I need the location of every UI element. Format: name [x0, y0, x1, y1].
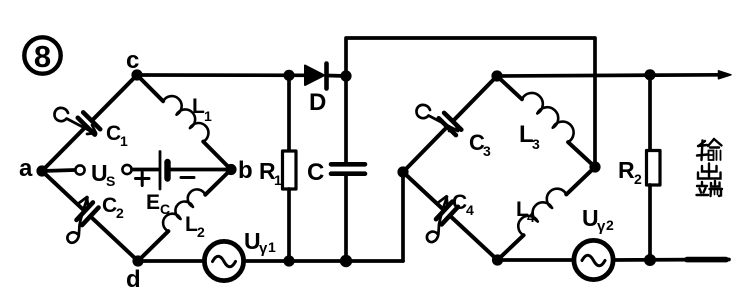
svg-text:D: D — [309, 89, 326, 116]
svg-text:R: R — [618, 157, 635, 183]
svg-text:E: E — [146, 191, 160, 214]
svg-text:1: 1 — [120, 133, 128, 149]
svg-text:C: C — [102, 194, 117, 217]
svg-text:2: 2 — [116, 205, 124, 221]
svg-text:b: b — [238, 157, 253, 184]
svg-text:3: 3 — [532, 136, 540, 152]
svg-text:c: c — [126, 47, 139, 74]
svg-text:4: 4 — [527, 209, 535, 225]
svg-text:4: 4 — [466, 202, 474, 218]
svg-text:3: 3 — [483, 143, 491, 159]
svg-text:γ: γ — [597, 218, 606, 235]
svg-text:2: 2 — [634, 171, 642, 187]
svg-text:C: C — [452, 191, 467, 214]
svg-text:8: 8 — [34, 39, 51, 74]
svg-text:1: 1 — [268, 239, 276, 255]
svg-text:d: d — [126, 266, 141, 293]
svg-text:S: S — [106, 173, 115, 189]
svg-text:2: 2 — [197, 224, 205, 240]
svg-text:2: 2 — [606, 217, 614, 233]
svg-text:C: C — [307, 159, 324, 186]
svg-text:1: 1 — [274, 172, 282, 188]
svg-text:a: a — [19, 155, 33, 182]
svg-text:1: 1 — [204, 108, 212, 124]
svg-text:C: C — [106, 122, 121, 145]
svg-text:γ: γ — [259, 240, 268, 257]
svg-text:C: C — [160, 201, 170, 217]
